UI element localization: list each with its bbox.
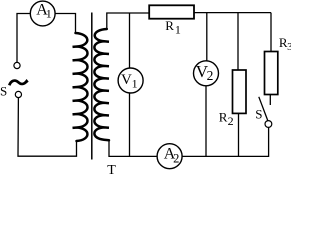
svg-text:3: 3 bbox=[287, 41, 291, 53]
svg-text:T: T bbox=[107, 163, 116, 176]
voltmeter V1 bbox=[118, 68, 143, 93]
resistor R3 bbox=[265, 52, 278, 95]
label R1 bbox=[165, 18, 181, 37]
svg-text:1: 1 bbox=[175, 22, 181, 36]
AC source bottom terminal bbox=[15, 91, 21, 97]
transformer primary winding bbox=[73, 33, 88, 141]
svg-text:R: R bbox=[165, 18, 174, 33]
label R2 bbox=[219, 110, 234, 128]
transformer secondary winding bbox=[94, 29, 109, 140]
svg-text:2: 2 bbox=[173, 152, 179, 166]
ammeter A1 bbox=[30, 1, 55, 26]
svg-text:R: R bbox=[219, 110, 228, 125]
wire secondary coil bottom to bottom rail bbox=[109, 140, 157, 156]
voltmeter V2 bbox=[194, 61, 219, 86]
svg-text:2: 2 bbox=[207, 68, 214, 83]
wire from A1 right to primary coil top bbox=[55, 14, 75, 34]
voltmeter V2 branch upper wire bbox=[206, 13, 208, 61]
wire from A1 left down to source top terminal bbox=[17, 14, 30, 63]
switch S' pivot terminal bbox=[265, 121, 272, 128]
svg-text:S: S bbox=[255, 107, 262, 122]
svg-text:S: S bbox=[0, 83, 7, 98]
voltmeter V1 branch upper wire bbox=[129, 13, 131, 68]
switch S' blade bbox=[259, 97, 268, 121]
wire secondary top corner bbox=[107, 13, 149, 29]
AC source top terminal bbox=[14, 62, 20, 68]
voltmeter V1 branch lower wire bbox=[129, 93, 131, 156]
svg-text:V: V bbox=[121, 72, 132, 88]
top rail right corner down to R3 bbox=[270, 13, 272, 52]
AC source tilde symbol bbox=[9, 81, 27, 86]
transformer core bbox=[91, 13, 93, 160]
resistor R1 bbox=[149, 5, 194, 18]
top rail right of R1 bbox=[194, 12, 271, 14]
resistor R2 bbox=[233, 70, 247, 113]
svg-text:2: 2 bbox=[228, 114, 234, 128]
wire from source bottom terminal to primary coil bottom bbox=[18, 98, 77, 157]
svg-text:1: 1 bbox=[132, 77, 138, 91]
resistor R2 branch lower wire bbox=[238, 113, 240, 156]
svg-text:1: 1 bbox=[46, 7, 52, 21]
label R3 bbox=[279, 35, 293, 53]
wire switch to bottom rail corner bbox=[182, 127, 269, 156]
resistor R2 branch upper wire bbox=[237, 13, 239, 70]
wire R3 bottom stub bbox=[269, 95, 271, 106]
ammeter A2 bbox=[157, 144, 182, 169]
voltmeter V2 branch lower wire bbox=[205, 86, 207, 157]
